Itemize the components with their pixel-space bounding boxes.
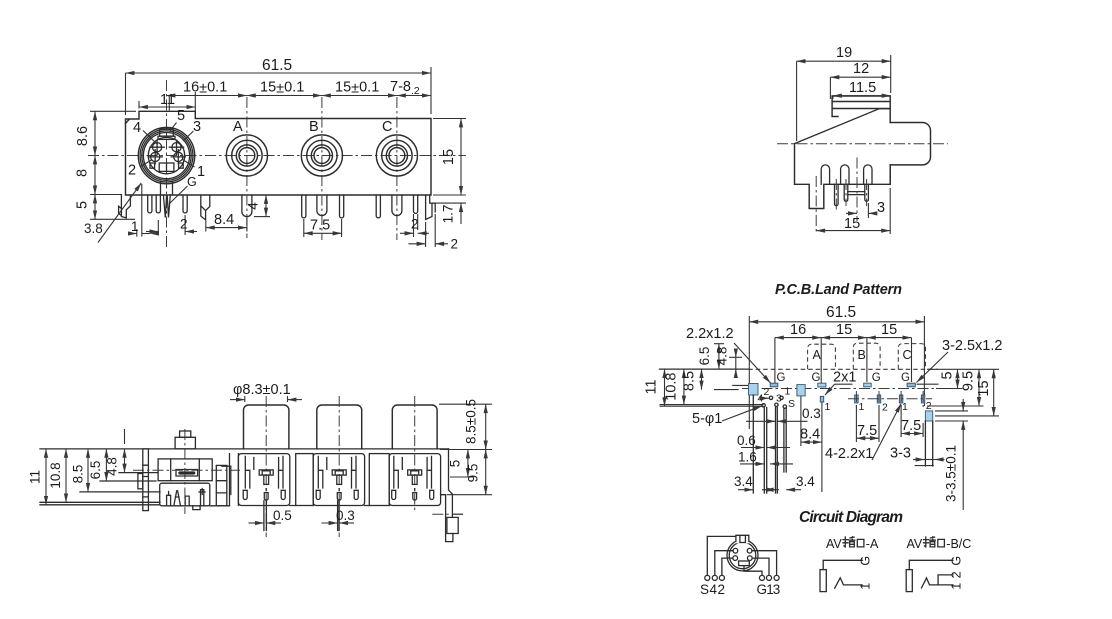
svg-text:7.5: 7.5 [310,218,330,234]
svg-text:11.5: 11.5 [849,80,876,96]
dim 8.5 bottom view [87,449,89,492]
mounting leg right [426,195,436,220]
dim 11.5 [832,96,834,99]
DIN shell rings [138,127,194,183]
svg-text:9.5: 9.5 [961,371,977,391]
DIN shield spikes [163,195,170,218]
svg-text:1: 1 [825,401,831,413]
jack BC sleeve contact [906,570,912,592]
dim 8.4 [206,218,247,232]
cylinder B [317,405,362,449]
dim 16±0.1 / 15±0.1 / 15±0.1 / 7-φ2 chain [167,95,247,97]
terminal S [705,575,710,580]
A pin gap lines 0.5 [264,501,267,531]
DIN shield side notch left [150,163,155,168]
svg-text:B: B [309,119,319,135]
wire pin3 [752,551,777,576]
centerline B [338,396,340,537]
ext tick 16 dim [168,97,170,111]
dim 8.5±0.5 [485,404,487,449]
svg-text:15: 15 [881,322,897,338]
jack A tip spring [835,578,862,588]
svg-text:1.6: 1.6 [738,450,757,465]
dim 1 [137,184,142,237]
notch white-out [735,534,749,543]
slot between B and C [369,454,389,506]
PCB edge dashed line [748,368,938,370]
right ext lines [927,369,999,421]
svg-text:G: G [872,372,881,384]
body bottom right portion [210,495,446,506]
DIN centerline vertical [166,80,168,248]
svg-text:S: S [788,398,795,410]
module B outline [313,454,364,506]
svg-text:2: 2 [180,217,188,232]
dim 15 side [889,188,891,234]
svg-text:4-2.2x1: 4-2.2x1 [825,446,873,462]
right edge and leg [446,449,453,542]
centerline A [265,396,267,537]
dim 9.5 bottom view [485,450,487,495]
DIN inner pin b [185,496,189,506]
svg-text:2.2x1.2: 2.2x1.2 [686,326,734,342]
svg-text:0.6: 0.6 [737,433,756,448]
DIN pin terminal b [156,195,160,213]
jack C left pin [376,195,380,218]
right leg centerline [432,513,463,515]
svg-text:8.6: 8.6 [75,126,91,146]
svg-text:0.3: 0.3 [802,406,821,421]
mini-DIN bottom slot [739,561,750,566]
side view center pin centerline [856,158,858,222]
cylinder A [244,405,289,449]
pad row centerline [742,388,936,390]
svg-text:4.8: 4.8 [715,347,730,366]
svg-text:-B/C: -B/C [946,537,971,551]
dim 4.8 [729,356,742,358]
right mount pad column lines [925,421,932,466]
svg-text:C: C [382,119,392,135]
dim 15 right [993,369,995,416]
svg-text:3-3.5±0.1: 3-3.5±0.1 [944,445,959,502]
pin column lines down [753,395,786,493]
svg-text:2: 2 [451,237,459,252]
dim 12 [829,77,831,99]
svg-text:5: 5 [448,460,463,468]
jack C centerline vertical [396,97,398,240]
jack C dashed outline [898,344,925,370]
dim chain 16/15/15 LP [775,338,912,383]
dim 3.4 right [762,489,776,491]
left dims 11 / 10.8 / 8.5 [660,385,764,406]
DIN bottom slot [159,163,174,171]
dim 0.5 [249,522,264,524]
DIN pin contact LL [733,556,738,561]
hanzi kou [857,539,864,547]
pin pad row centerline [848,398,932,400]
svg-text:15±0.1: 15±0.1 [335,80,379,97]
DIN inner shield V [174,491,180,505]
svg-text:10.8: 10.8 [48,462,63,488]
pin label 2 leader [141,160,152,167]
svg-text:1.7: 1.7 [441,205,456,224]
svg-text:5: 5 [75,201,91,209]
jack A center pin [242,195,252,217]
module B internals [316,456,358,500]
dim 5 right [957,369,959,388]
jack A dashed outline [808,344,836,369]
module C internals [392,456,434,500]
terminal 4 [712,575,717,580]
side view body outline [795,144,891,209]
svg-text:1: 1 [131,219,139,234]
svg-text:15±0.1: 15±0.1 [260,80,304,97]
module A internals [243,456,285,500]
svg-text:6.5: 6.5 [697,347,712,366]
svg-text:12: 12 [853,61,869,77]
svg-text:G: G [777,372,786,384]
left horizontal centerline [133,469,240,471]
dim phi8.3±0.1 [245,396,288,402]
svg-text:G: G [858,556,872,566]
svg-text:8.5: 8.5 [71,465,86,484]
pin label 5 leader [170,123,177,132]
jack A rings [226,135,267,176]
wire pin2 [722,558,733,575]
svg-text:15: 15 [441,149,457,165]
svg-text:8.5: 8.5 [682,371,698,391]
svg-text:A: A [233,119,243,135]
module C outline [389,454,440,506]
left dim ext lines [40,473,160,505]
pin pad centerlines vertical [856,391,923,407]
side view leg centerline [815,176,817,234]
jack A ground lead [823,560,862,569]
channel right of DIN [216,465,227,505]
svg-text:1: 1 [197,164,205,180]
jack BC tip spring [922,578,953,588]
svg-text:5-φ1: 5-φ1 [692,411,722,427]
svg-text:11: 11 [28,470,43,484]
mini-DIN symbol inner circle [729,542,756,569]
slot between A and B [296,454,314,506]
DIN G pad 2.2x1.2 [770,383,778,387]
svg-text:G: G [812,372,821,384]
svg-text:4: 4 [133,120,141,136]
svg-text:G: G [187,175,197,189]
contact bracket between pins [848,192,865,195]
svg-text:1: 1 [858,583,872,590]
svg-text:3: 3 [776,393,782,405]
svg-text:3-3: 3-3 [890,446,911,462]
wire pin4 [715,551,733,576]
dim 3.8 leader [98,183,141,243]
jack BC ground lead [909,560,953,569]
dim 19 [797,55,891,141]
svg-text:6.5: 6.5 [88,461,103,480]
svg-text:AV: AV [907,537,923,551]
jack C right pin [414,195,418,213]
jack C G pad [907,383,915,387]
slot left of A [230,454,239,506]
hanzi kou [938,539,945,547]
DIN pin contact UL [733,548,738,553]
jack A centerline vertical [246,97,248,238]
dim 6.5 bottom view [105,449,107,481]
svg-text:9.5: 9.5 [466,464,481,483]
right ext lines bottom view [439,404,492,495]
wire shield to S [707,536,736,575]
svg-text:S: S [700,582,709,597]
dim 3-3.5±0.1 [962,399,964,411]
jack B G pad [864,383,872,387]
svg-text:A: A [813,348,822,362]
hanzi cha [924,537,936,547]
svg-text:15: 15 [844,216,860,232]
DIN pin 1 (lower-right) [171,150,185,164]
svg-text:5: 5 [940,371,956,379]
svg-text:Circuit Diagram: Circuit Diagram [799,509,903,526]
mounting leg left [119,195,131,218]
DIN key slot dark bar [178,471,195,474]
side pins below body [835,184,839,205]
B/C pin pads 4-2.2x1 [855,395,858,403]
dim 3-3 [925,459,935,461]
jack B centerline vertical [321,97,323,240]
pin centerlines [836,179,866,210]
svg-text:G: G [950,556,964,566]
svg-text:0.3: 0.3 [336,508,355,523]
jack B center pin [317,195,327,216]
left dim chain 8.6 / 8 / 5 [90,111,136,219]
svg-text:16: 16 [790,322,806,338]
mini-DIN key notch [736,535,749,542]
svg-text:P.C.B.Land Pattern: P.C.B.Land Pattern [775,282,902,298]
svg-text:2: 2 [882,402,888,414]
terminal 1 [766,575,771,580]
svg-text:1: 1 [785,386,791,398]
DIN inner box [160,483,210,506]
svg-text:2: 2 [128,163,136,179]
DIN shield pad [797,385,805,396]
dim 2 jack C pin [414,214,418,237]
svg-text:0.5: 0.5 [273,508,292,523]
svg-text:11: 11 [644,379,660,394]
jack A pin pad 2x1 [820,396,823,402]
svg-text:11: 11 [160,92,175,108]
mini-DIN symbol outer circle [727,540,758,571]
jack C center pin [392,195,402,216]
side view shield taper diagonal [795,109,891,144]
pin label 1 leader [183,160,195,168]
svg-text:3: 3 [877,200,885,216]
body top edge line with ext [40,448,449,450]
svg-text:61.5: 61.5 [826,304,856,321]
DIN tab stack top [175,437,195,449]
dim 61.5 [126,67,432,115]
svg-text:B: B [858,348,866,362]
left solid edge line [660,368,749,370]
svg-text:AV: AV [826,537,842,551]
dim 11 tab [139,92,195,115]
jack B left pin [302,195,306,218]
barrel to body edge [889,165,891,184]
right leg hook box [447,517,458,533]
svg-text:2: 2 [764,386,770,398]
svg-text:3.4: 3.4 [734,474,753,489]
dim 1.7 right [430,202,466,204]
pin label G leader [169,186,188,204]
DIN shield side notch right [179,163,184,168]
svg-text:1: 1 [859,401,865,413]
svg-text:4: 4 [710,582,718,597]
wire G [744,566,762,576]
svg-text:61.5: 61.5 [262,57,292,74]
side view centerline [777,143,948,145]
right mount pad [925,411,932,421]
mounting leg mid [201,195,210,220]
svg-text:3: 3 [193,119,201,135]
dim 7.5 B [856,405,879,442]
DIN pin contact LR [747,556,752,561]
dim 4.8 bottom view [124,429,126,444]
jack A G pad [818,383,826,387]
svg-text:10.8: 10.8 [664,372,680,400]
DIN inner S pin [199,489,205,506]
pin label 4 leader [143,131,158,145]
svg-text:2: 2 [718,582,726,597]
dim 5 bottom view [467,450,469,478]
DIN pin 3 (upper-right) [169,140,183,154]
DIN inner shield [148,137,184,173]
svg-text:5: 5 [177,108,185,124]
dim 61.5 LP [749,316,924,429]
svg-text:C: C [903,348,912,362]
jack BC switch contact 2 [938,575,953,585]
DIN pin 2 (lower-left) [148,150,162,164]
dim 9.5 right [978,369,980,406]
svg-text:3: 3 [773,582,781,597]
side view front flange [832,96,890,123]
shield pad ext line [800,396,802,446]
dim 7.5 [304,219,342,237]
DIN box bottom view [158,459,212,481]
svg-text:4: 4 [246,202,261,210]
horizontal centerline [88,155,466,157]
svg-text:2: 2 [950,571,964,578]
DIN pin holes 5-phi1 [762,404,765,407]
centerline C [414,396,416,511]
svg-text:2: 2 [411,217,419,232]
left mount pad [749,384,759,396]
svg-text:15: 15 [976,380,992,396]
dim 11 bottom view [45,449,47,505]
dim 0.3 [322,522,338,524]
svg-text:-A: -A [866,537,879,551]
dim 6.5 [714,343,724,345]
dim 3 side pins [867,203,869,218]
svg-text:7.5: 7.5 [857,423,877,439]
jack A sleeve contact [820,570,826,592]
dim 8.4 LP [801,441,822,443]
svg-text:G: G [901,372,910,384]
DIN key notch top [160,129,174,136]
dim 1.6 [740,463,764,465]
wire pin1 [752,558,769,575]
DIN pin terminal c [183,195,187,213]
svg-text:4.8: 4.8 [105,457,120,476]
dim 15 right side [433,119,466,196]
DIN pin 4 (upper-left) [150,140,164,154]
left column leg [143,449,149,511]
terminal G [759,575,764,580]
RCA barrel side [890,123,930,165]
svg-text:7.5: 7.5 [901,418,921,434]
svg-text:16±0.1: 16±0.1 [183,80,227,97]
DIN inner pin a [167,492,171,506]
svg-text:8: 8 [75,169,91,177]
DIN neck lines to panel [161,182,173,196]
B pin gap lines 0.3 [338,501,340,531]
module A outline [238,454,289,506]
cylinder C [392,405,437,449]
jack A pin ext line [821,403,823,493]
dim 10.8 bottom view [65,449,67,502]
DIN key slot outline [176,470,198,477]
jack B right pin [340,195,344,218]
dim 4 pin length [254,216,270,218]
svg-text:3-2.5x1.2: 3-2.5x1.2 [942,338,1002,354]
dim 7.5 C [901,405,923,437]
panel outline front view [126,111,432,195]
svg-text:φ8.3±0.1: φ8.3±0.1 [233,382,291,398]
svg-text:15: 15 [836,322,852,338]
jack C rings [376,135,417,176]
terminal 3 [774,575,779,580]
pin label 3 leader [183,131,194,141]
dim 2 under DIN [158,215,185,235]
svg-text:19: 19 [836,45,852,61]
pin slot arcs in body [821,165,829,184]
terminal 2 [719,575,724,580]
centerline DIN bottom view [184,429,186,514]
inner box notch [193,506,200,510]
svg-text:8.5±0.5: 8.5±0.5 [464,399,479,444]
svg-text:1: 1 [950,583,964,590]
dim 0.6 [741,447,764,449]
dim 3.4 left [738,489,753,491]
dim 0.3 [746,420,776,422]
left small block [138,474,143,489]
jack B dashed outline [853,343,880,369]
dim 2 right leg [426,214,436,247]
svg-text:8.4: 8.4 [800,427,820,443]
svg-text:2x1: 2x1 [833,370,856,386]
hanzi cha [843,537,855,547]
svg-text:8.4: 8.4 [214,212,234,228]
DIN pin contact UR [747,548,752,553]
DIN pin terminal a [148,195,152,213]
svg-text:3.8: 3.8 [84,221,103,236]
svg-text:1: 1 [902,401,908,413]
svg-text:3.4: 3.4 [796,474,815,489]
pad column cap line [915,465,934,467]
jack B rings [301,135,342,176]
